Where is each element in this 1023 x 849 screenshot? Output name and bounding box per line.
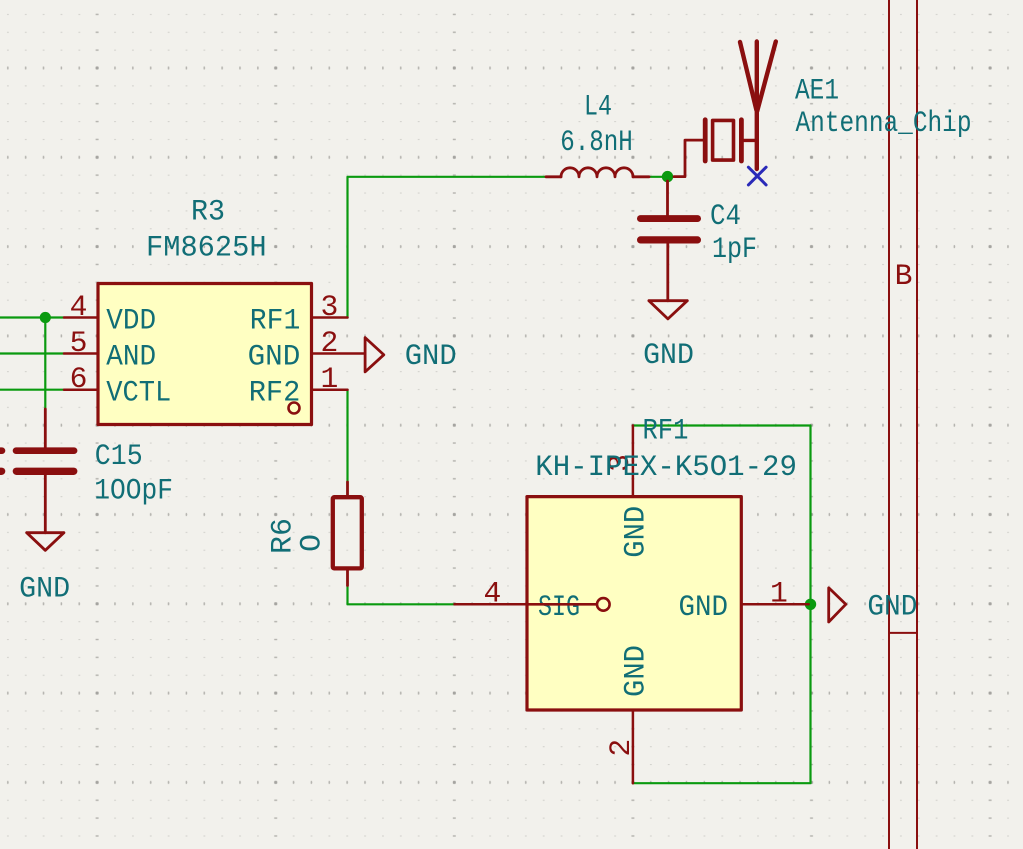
IC RF2 marker circle (289, 403, 300, 414)
antenna mast (755, 42, 759, 170)
IC pin 4 lead (64, 316, 98, 319)
IC pin 2 lead (312, 352, 366, 355)
capacitor C4 plates (637, 215, 701, 222)
sheet border inner line (888, 0, 890, 849)
resistor R6 bottom lead (346, 568, 349, 585)
svg-text:B: B (895, 259, 913, 293)
svg-text:GND: GND (248, 340, 301, 374)
svg-text:5: 5 (70, 326, 88, 360)
svg-text:L4: L4 (584, 89, 612, 123)
sheet border row divider (889, 632, 917, 634)
connector pin 2 lead bottom (632, 710, 635, 783)
svg-text:SIG: SIG (538, 590, 580, 624)
svg-text:1: 1 (321, 362, 339, 396)
svg-text:O: O (295, 534, 329, 552)
capacitor C15 lead bottom (44, 475, 47, 533)
resistor R6 body (333, 497, 362, 568)
sheet border outer line (916, 0, 918, 849)
antenna right arm (757, 42, 776, 112)
wire R6 bottom to connector SIG (348, 586, 455, 605)
svg-text:AE1: AE1 (795, 74, 839, 108)
svg-text:GND: GND (867, 590, 917, 624)
neighbour capacitor plate stubs at left edge (0, 447, 5, 454)
wire AND row from left edge (0, 352, 64, 354)
wire RF2 pin1 down to R6 (346, 390, 348, 482)
ground symbol below C4 (649, 301, 687, 319)
svg-text:4: 4 (70, 290, 88, 324)
connector RF1 body (527, 497, 741, 710)
capacitor C15 lead top (44, 409, 47, 447)
svg-text:1pF: 1pF (712, 232, 757, 266)
svg-text:2: 2 (604, 739, 638, 757)
antenna left arm (740, 42, 756, 110)
svg-text:1OOpF: 1OOpF (94, 474, 173, 508)
wire VDD row from left edge (0, 316, 64, 318)
svg-text:6: 6 (70, 362, 88, 396)
svg-text:RF1: RF1 (643, 414, 689, 448)
svg-text:AND: AND (106, 340, 156, 374)
capacitor C4 lead bottom (666, 244, 669, 301)
IC pin 6 lead (64, 388, 98, 391)
svg-text:GND: GND (679, 590, 729, 624)
IC U R3 body (98, 284, 312, 425)
capacitor C4 lead top (666, 181, 669, 215)
wire RF1 pin3 up and right to L4 (348, 177, 547, 318)
ground symbol below C15 (27, 533, 64, 551)
inductor L4 (546, 175, 649, 178)
capacitor C15 plates (13, 447, 78, 454)
wire vertical VDD to C15 (44, 318, 46, 410)
antenna chip body (713, 120, 734, 160)
antenna chip left plate (703, 120, 708, 161)
connector pin 3 lead top (632, 426, 635, 497)
svg-text:FM8625H: FM8625H (146, 231, 267, 265)
no-connect X on antenna pin 2 (748, 167, 766, 185)
resistor R6 top lead (346, 482, 349, 497)
connector SIG pin line over name (527, 603, 596, 606)
IC pin 3 lead (312, 316, 348, 319)
svg-text:VCTL: VCTL (106, 376, 171, 410)
svg-text:RF2: RF2 (249, 376, 301, 410)
IC pin 1 lead (312, 388, 348, 391)
svg-text:C4: C4 (710, 199, 741, 233)
svg-text:R3: R3 (191, 195, 225, 229)
svg-text:GND: GND (618, 645, 652, 697)
svg-text:C15: C15 (95, 439, 143, 473)
junction on VDD wire (40, 312, 51, 323)
IC pin 5 lead (64, 352, 98, 355)
svg-text:GND: GND (643, 338, 694, 372)
connector pin 1 lead right (741, 603, 808, 606)
svg-text:1: 1 (770, 577, 788, 611)
svg-text:RF1: RF1 (250, 304, 301, 338)
wire connector pin2 bottom to right bus (633, 604, 811, 783)
svg-text:GND: GND (19, 572, 70, 606)
junction at connector pin1 / GND (805, 599, 816, 610)
wire L4 to junction node (649, 176, 682, 178)
antenna AE1 pin lead (674, 140, 703, 177)
svg-text:6.8nH: 6.8nH (560, 125, 633, 159)
junction at L4 / C4 / antenna node (662, 171, 673, 182)
svg-text:4: 4 (484, 577, 502, 611)
connector pin 4 lead left (455, 603, 528, 606)
antenna chip right plate (739, 120, 744, 161)
connector SIG bubble (597, 598, 610, 611)
svg-text:KH-IPEX-K5O1-29: KH-IPEX-K5O1-29 (535, 450, 797, 484)
svg-text:GND: GND (618, 506, 652, 558)
svg-text:GND: GND (405, 339, 457, 373)
svg-text:VDD: VDD (106, 304, 156, 338)
GND power arrow at IC pin2 (365, 338, 384, 372)
antenna chip link to mast (744, 139, 757, 142)
wire connector pin3 top to right bus (633, 426, 811, 605)
wire VCTL row from left edge (0, 389, 64, 391)
svg-text:3: 3 (321, 290, 339, 324)
svg-text:Antenna_Chip: Antenna_Chip (796, 106, 972, 140)
svg-text:2: 2 (321, 326, 339, 360)
GND power arrow at connector pin1 (829, 588, 846, 622)
